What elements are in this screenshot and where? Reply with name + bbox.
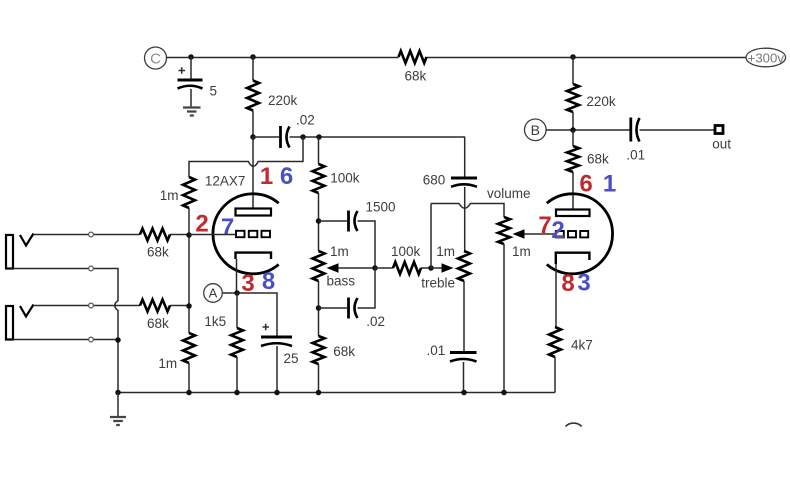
svg-text:68k: 68k [333, 344, 355, 359]
svg-text:bass: bass [327, 274, 356, 289]
svg-text:1500: 1500 [366, 199, 396, 214]
node rail 68k bass [316, 390, 322, 396]
node treble wiper junction [428, 265, 434, 271]
node junction C-cap [188, 54, 194, 60]
node rail volume [501, 390, 507, 396]
potentiometer bass 1m [313, 244, 356, 289]
tube V2 plate [556, 210, 590, 217]
wire B node [546, 129, 630, 131]
node grid return [300, 134, 306, 140]
wire 4k7 bottom lead [554, 357, 556, 393]
capacitor 680 (treble) [423, 173, 477, 188]
node jack2 sleeve junction [115, 337, 121, 343]
svg-text:680: 680 [423, 173, 446, 188]
volume wiper arrow [513, 229, 556, 238]
svg-text:68k: 68k [147, 245, 169, 260]
resistor 1m (grid leak V1) [160, 177, 195, 208]
svg-text:8: 8 [561, 270, 574, 297]
wire .02 bass left lead [319, 307, 348, 309]
svg-text:68k: 68k [587, 151, 609, 166]
terminal +300v [746, 48, 786, 67]
treble wiper arrow [431, 263, 454, 272]
node grid junction V1 [186, 232, 192, 238]
wire 1500 right to wiper node [358, 221, 376, 268]
tube V2 grid [556, 231, 588, 237]
op tube 12AX7 V2 envelope [547, 194, 613, 274]
tube V1 cathode [236, 253, 272, 259]
wire grid entry V1 [189, 234, 236, 236]
node B junction [570, 127, 576, 133]
node 1500 tap [316, 218, 322, 224]
wire 220k V1 bottom lead [252, 111, 254, 138]
svg-text:6: 6 [280, 163, 293, 190]
wire cathode V2 lead [555, 264, 557, 327]
stray tube arc [566, 423, 582, 426]
pin 8 V2 [561, 270, 574, 297]
pin 7 V1 [221, 214, 234, 241]
terminal C [145, 47, 167, 69]
pin 6 V2 [579, 171, 592, 198]
pin 3 V1 [241, 270, 254, 297]
svg-text:4k7: 4k7 [571, 338, 593, 353]
wire ground rail [118, 392, 555, 394]
jack 2 tip contact [20, 305, 34, 317]
svg-text:volume: volume [487, 186, 531, 201]
svg-text:100k: 100k [330, 170, 360, 185]
svg-text:5: 5 [210, 84, 218, 99]
svg-text:.02: .02 [296, 112, 315, 127]
resistor 1k5 (cathode V1) [204, 293, 243, 393]
capacitor .01 (treble to ground) [427, 343, 477, 362]
wire .01 treble bottom lead [463, 362, 465, 393]
resistor 220k (plate load V1) [247, 81, 298, 111]
svg-text:.01: .01 [626, 148, 645, 163]
resistor 100k (slope) [313, 137, 360, 251]
tube V2 cathode [556, 253, 590, 264]
op tube 12AX7 V1 envelope [205, 174, 279, 274]
node junction 220k V1 [250, 54, 256, 60]
pin 1 V2 [603, 171, 616, 198]
wire 680 bottom to treble pot [464, 187, 466, 251]
wire jack1 sleeve with hop [13, 269, 118, 340]
capacitor .02 (coupling) [281, 112, 315, 148]
node cathode V1 [234, 290, 240, 296]
jack 1 sleeve [6, 235, 13, 269]
svg-text:6: 6 [579, 171, 592, 198]
wire 220k V2 top lead [572, 57, 574, 84]
resistor 100k (mid) [375, 244, 431, 274]
svg-text:+300v: +300v [748, 50, 785, 65]
wire jack1 tip [34, 234, 190, 236]
wire top supply rail [167, 57, 747, 59]
svg-text:68k: 68k [147, 316, 169, 331]
resistor 68k (input 1) [140, 229, 170, 260]
resistor 1m (grid leak lower) [158, 333, 195, 371]
resistor 4k7 (cathode V2) [549, 327, 593, 357]
terminal out [712, 126, 731, 152]
resistor 68k (supply decoupling) [399, 51, 427, 84]
wire grid return with hop over plate lead [189, 137, 303, 177]
svg-text:.02: .02 [366, 314, 385, 329]
capacitor .02 (bass) [349, 298, 385, 330]
capacitor 25 (cathode bypass) [261, 324, 299, 366]
resistor 220k (plate load V2) [567, 84, 616, 112]
node jack1 tip tap [89, 232, 94, 237]
node rail .01 treble [461, 390, 467, 396]
svg-text:1k5: 1k5 [204, 314, 226, 329]
node 100k slope tap [316, 134, 322, 140]
node rail 1k5 [234, 390, 240, 396]
svg-text:7: 7 [221, 214, 234, 241]
node rail ground rail left [115, 390, 121, 396]
svg-text:1: 1 [260, 163, 273, 190]
tube V1 grid [236, 231, 270, 237]
wire .02 left lead [253, 136, 279, 138]
wire jack2 tip [34, 305, 190, 307]
node bass cap tap [316, 305, 322, 311]
svg-text:7: 7 [538, 212, 551, 239]
jack 2 sleeve [6, 306, 13, 340]
wire .01 out to terminal [640, 129, 715, 131]
wire 220k V2 bottom lead [572, 112, 574, 130]
svg-text:C: C [150, 50, 161, 67]
potentiometer volume 1m [487, 186, 531, 259]
wire 5-cap to ground [190, 89, 192, 107]
pin 7 V2 [538, 212, 551, 239]
wire treble bottom lead [463, 281, 465, 352]
wire 1500 left lead [319, 220, 348, 222]
svg-text:220k: 220k [268, 93, 298, 108]
wire treble wiper riser with hop [431, 204, 504, 269]
svg-text:25: 25 [284, 351, 299, 366]
terminal A [204, 284, 223, 303]
terminal B [525, 119, 547, 141]
svg-text:1m: 1m [158, 356, 177, 371]
wire 25 cap bottom lead [276, 346, 278, 393]
capacitor 5 (filter) [178, 67, 218, 98]
wire .02 right to 680 cap [290, 137, 466, 177]
svg-text:2: 2 [195, 211, 208, 238]
node jack2 tip tap [89, 303, 94, 308]
wire C-cap top lead [190, 57, 192, 79]
node plate V1 [250, 134, 256, 140]
tube V1 plate [236, 209, 272, 216]
wire A to bypass cap [222, 293, 277, 337]
wire jack2 sleeve [13, 340, 118, 393]
pin 8 V1 [262, 268, 275, 295]
wire 220k V1 top lead [252, 57, 254, 81]
svg-text:out: out [712, 137, 731, 152]
jack 1 tip contact [20, 234, 34, 246]
pin 2 V2 [551, 217, 564, 244]
pin 3 V2 [577, 270, 590, 297]
ground (filter cap) [183, 108, 201, 116]
wire .02 bass right lead [358, 268, 376, 308]
node jack1 sleeve tap [89, 266, 94, 271]
resistor 68k (bass to ground) [313, 336, 356, 393]
node bass wiper junction [372, 265, 378, 271]
svg-text:treble: treble [421, 275, 455, 290]
wire bass bottom lead [318, 281, 320, 336]
svg-text:8: 8 [262, 268, 275, 295]
svg-text:220k: 220k [586, 94, 616, 109]
ground (main) [110, 417, 126, 425]
svg-text:100k: 100k [391, 244, 421, 259]
svg-text:12AX7: 12AX7 [205, 174, 246, 189]
capacitor 1500 (treble) [349, 199, 396, 231]
bass wiper arrow [327, 263, 376, 272]
capacitor .01 (output coupling) [626, 118, 645, 163]
svg-text:3: 3 [577, 270, 590, 297]
svg-text:1m: 1m [160, 188, 179, 203]
resistor 68k (input 2) [140, 300, 170, 332]
svg-text:A: A [209, 286, 218, 301]
pin 1 V1 [260, 163, 273, 190]
node rail 1m lower [186, 390, 192, 396]
pin 2 V1 [195, 211, 208, 238]
svg-text:1: 1 [603, 171, 616, 198]
svg-text:B: B [531, 122, 540, 138]
svg-text:1m: 1m [512, 244, 531, 259]
svg-text:2: 2 [551, 217, 564, 244]
wire grid bus vertical [188, 208, 190, 333]
svg-text:68k: 68k [405, 69, 427, 84]
node junction 220k V2 [570, 54, 576, 60]
wire 1m lower bottom lead [188, 363, 190, 393]
wire volume bottom lead [503, 244, 505, 393]
node grid junction 2 [186, 303, 192, 309]
wire main ground lead [117, 393, 119, 417]
node rail 25 cap [274, 390, 280, 396]
wire cathode V1 lead [236, 259, 238, 293]
resistor 68k (V2 grid stopper) [567, 130, 609, 209]
pin 6 V1 [280, 163, 293, 190]
svg-text:.01: .01 [427, 343, 446, 358]
node jack2 sleeve tap [89, 337, 94, 342]
svg-text:1m: 1m [436, 244, 455, 259]
potentiometer treble 1m [421, 244, 470, 290]
wire plate lead V1 [252, 137, 254, 209]
svg-text:1m: 1m [330, 244, 349, 259]
